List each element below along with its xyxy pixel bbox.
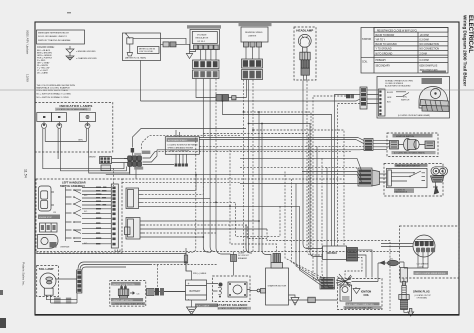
bus y167.3 <box>240 167 362 175</box>
svg-text:W TO GROUND: W TO GROUND <box>376 53 393 55</box>
svg-text:(LOCATED ON RIGHT HANDLEBAR): (LOCATED ON RIGHT HANDLEBAR) <box>398 114 430 117</box>
throttle left connector <box>360 87 379 109</box>
svg-text:9920 ATV Update: 9920 ATV Update <box>26 30 30 54</box>
svg-text:STATOR LOCATED UNDER MODULE: STATOR LOCATED UNDER MODULE <box>415 272 447 275</box>
svg-text:DK = DARK: DK = DARK <box>37 71 49 74</box>
magneto flywheel <box>413 235 435 257</box>
svg-text:STATOR: STATOR <box>362 38 371 41</box>
wire headlamp drop 2 <box>307 81 323 256</box>
gear indicator switch title label <box>395 164 428 167</box>
bus y253.5 <box>37 253 187 255</box>
left edge scan smudge <box>0 318 6 328</box>
tail lamp wires <box>46 294 77 304</box>
throttle label above box <box>422 71 446 74</box>
indicator lamps dashed box <box>35 103 113 153</box>
svg-text:MAIN/TRACE COLORS, EXAMPLE:: MAIN/TRACE COLORS, EXAMPLE: <box>37 87 71 90</box>
wire breaker top <box>233 252 235 276</box>
svg-text:(LOCATED BELOW HANDLEBARS): (LOCATED BELOW HANDLEBARS) <box>57 108 88 111</box>
svg-text:ADJUSTMENT IS REQUIRED: ADJUSTMENT IS REQUIRED <box>385 85 411 88</box>
svg-text:REGULATOR: REGULATOR <box>196 37 209 40</box>
svg-text:COIL: COIL <box>362 62 368 64</box>
wire limiter drop 3 <box>252 80 254 252</box>
svg-text:SWITCH ASSEMBLY: SWITCH ASSEMBLY <box>60 184 85 188</box>
svg-text:20 AMP: 20 AMP <box>238 251 245 254</box>
handlebar wire label dashes <box>96 187 106 245</box>
svg-text:(LOCATED ON TOP: (LOCATED ON TOP <box>415 294 432 297</box>
legend text block wires represented <box>37 30 85 44</box>
ignition coil labels <box>344 302 382 309</box>
gear indicator located label <box>394 188 414 193</box>
resistance table <box>361 28 448 74</box>
brake switch harness connector <box>147 289 162 296</box>
wire vertical 322 <box>322 158 325 277</box>
legend NC NO notes <box>37 84 76 99</box>
starter motor <box>266 254 289 306</box>
20 amp circuit breaker <box>231 251 250 261</box>
svg-text:STARTER MOTOR: STARTER MOTOR <box>268 285 287 288</box>
svg-text:WIRES ARE REPRESENTED BY: WIRES ARE REPRESENTED BY <box>38 32 70 35</box>
harness connector block B <box>125 218 144 240</box>
wire tail harness right 2 <box>150 264 217 266</box>
wire connA pin4 <box>142 202 281 236</box>
reverse speed limiter <box>241 27 268 47</box>
wire throttle left 1 <box>335 95 361 247</box>
svg-text:BLK/R TO GROUND: BLK/R TO GROUND <box>376 44 398 46</box>
svg-text:COIL: COIL <box>364 295 370 297</box>
inline fuse on battery positive <box>184 248 187 271</box>
wire vertical 217 <box>216 175 231 254</box>
page frame <box>35 22 459 315</box>
battery cables labels <box>193 272 218 308</box>
engine stop label <box>38 215 60 220</box>
wire tail harness right 1 <box>160 255 186 262</box>
svg-text:BLK/R TO BRN/W: BLK/R TO BRN/W <box>376 35 396 37</box>
wire regulator drop 1 <box>196 79 216 98</box>
magneto labels <box>414 271 449 275</box>
ignition coil dashed box <box>338 279 383 310</box>
gear indicator lamp pair <box>431 167 448 182</box>
wire battery plus to solenoid <box>207 283 213 285</box>
magneto feed from left <box>381 244 413 247</box>
legend engine ground symbol <box>66 46 96 53</box>
wire connB pin2 <box>143 225 267 239</box>
reverse speed limiter wires down <box>246 47 259 59</box>
svg-text:Wiring Diagram 2000 Trail Blaz: Wiring Diagram 2000 Trail Blazer <box>463 15 468 86</box>
svg-text:SPEEDO AREA AND ENGINE: SPEEDO AREA AND ENGINE <box>168 146 194 149</box>
tail lamp dashed box <box>37 266 59 297</box>
wire cdi out 3 <box>345 258 362 279</box>
wire connB pin3 <box>143 228 267 230</box>
svg-text:Polaris Sales Inc.: Polaris Sales Inc. <box>22 262 26 286</box>
battery positive wire <box>186 263 192 280</box>
speedometer note box <box>165 137 199 155</box>
bus y149.8 <box>157 148 364 151</box>
svg-text:= ENGINE GROUND: = ENGINE GROUND <box>76 51 96 53</box>
starter solenoid dashed box <box>213 276 251 302</box>
frame bottom emphasis <box>35 314 459 316</box>
wire connA pin1 <box>142 175 197 191</box>
wire connB pin4 <box>143 232 216 234</box>
svg-text:GRN: GRN <box>387 97 392 99</box>
svg-text:TRANSMISSION: TRANSMISSION <box>394 191 408 194</box>
indicator lamp box 2 <box>52 113 67 122</box>
wire cdi out 1 <box>358 250 373 278</box>
svg-text:+: + <box>188 282 190 286</box>
ignition coil body <box>340 285 352 301</box>
wire cdi out 2 <box>358 255 367 278</box>
reverse speed limiter label <box>239 23 272 26</box>
handlebar switch housing <box>39 186 57 214</box>
tail lamp harness wires up <box>78 262 160 270</box>
wire vertical 196 dashed lower <box>186 138 196 256</box>
switch button row <box>40 223 58 232</box>
svg-text:INDICATOR LAMPS: INDICATOR LAMPS <box>60 104 93 108</box>
gear indicator switch dashed box <box>384 164 443 197</box>
svg-text:0.3 OHM: 0.3 OHM <box>420 40 429 42</box>
brake lamp switch labels <box>111 298 145 306</box>
cluster lower wire <box>143 164 175 166</box>
starter solenoid labels <box>217 303 251 310</box>
speedo feed wires <box>176 130 180 137</box>
legend chassis ground symbol <box>66 53 97 60</box>
route A terminal <box>131 148 134 153</box>
tail lamp harness connector <box>77 270 82 293</box>
gear indicator ground <box>433 182 439 194</box>
svg-text:OF ENGINE): OF ENGINE) <box>417 297 428 299</box>
svg-text:OVERRIDE: OVERRIDE <box>60 247 70 249</box>
cdi box <box>323 246 347 260</box>
svg-text:(LOCATED BELOW HANDLEBARS): (LOCATED BELOW HANDLEBARS) <box>394 152 425 155</box>
svg-text:ENGINE STOP: ENGINE STOP <box>39 217 53 219</box>
svg-text:BREAKER: BREAKER <box>238 257 248 260</box>
svg-text:LIMITER: LIMITER <box>248 36 257 38</box>
wire engine dashed route <box>267 229 390 311</box>
svg-text:R/W = RED WITH WHITE TRACE: R/W = RED WITH WHITE TRACE <box>37 89 69 92</box>
headlamp bulb <box>298 34 311 47</box>
ground near voltage regulator <box>186 52 192 59</box>
svg-text:GEAR INDICATOR SWITCH: GEAR INDICATOR SWITCH <box>396 164 421 167</box>
handlebar strip feed wires <box>82 188 111 244</box>
svg-text:NC = SWITCH NORMALLY CLOSED: NC = SWITCH NORMALLY CLOSED <box>37 93 72 96</box>
svg-text:ETC: ETC <box>403 97 408 99</box>
wire headlamp drop 1 <box>303 81 323 249</box>
wire vertical 203 lower <box>203 140 211 253</box>
svg-text:6300 OHM PLUS: 6300 OHM PLUS <box>420 65 438 67</box>
bus y137.5 <box>199 138 364 141</box>
svg-text:REVERSE SPEED: REVERSE SPEED <box>245 32 263 34</box>
starter to coil wire <box>289 297 338 303</box>
wire vertical 327 <box>327 167 335 287</box>
indicator lamp box 1 <box>37 113 52 122</box>
spark plug <box>399 278 409 312</box>
svg-text:(SHORTS OUT BUTTON): (SHORTS OUT BUTTON) <box>113 284 135 286</box>
svg-text:0.3 OHM: 0.3 OHM <box>420 60 429 62</box>
wire vertical 230 <box>230 150 277 254</box>
wire limiter drop 2 <box>248 80 250 252</box>
ignition switch key cylinder <box>390 139 435 151</box>
svg-text:12/99: 12/99 <box>26 74 30 82</box>
bus y171.5 <box>302 172 362 180</box>
oil sender connector pair <box>161 42 190 52</box>
ignition switch dashed box <box>387 133 438 157</box>
svg-text:NO CONNECTION: NO CONNECTION <box>420 44 440 46</box>
spark plug label <box>413 289 432 299</box>
svg-text:IGNITION: IGNITION <box>361 292 372 294</box>
starter motor ground <box>289 295 296 298</box>
wire solenoid to starter <box>247 290 252 291</box>
harness connector block A <box>126 188 142 209</box>
svg-text:Y/R TO Y: Y/R TO Y <box>376 40 386 42</box>
svg-text:NORMAL OPERATION IS OPEN: NORMAL OPERATION IS OPEN <box>385 79 413 82</box>
voltage regulator wires down <box>190 49 217 60</box>
reverse speed limiter connector stack <box>242 59 263 80</box>
svg-text:BLACK CABLE TO SPARK PLUG: BLACK CABLE TO SPARK PLUG <box>347 303 375 306</box>
wire coil feed 299 <box>300 206 326 288</box>
throttle terminal squares <box>346 94 350 98</box>
svg-text:Y TO GROUND: Y TO GROUND <box>376 49 392 51</box>
svg-text:11.54: 11.54 <box>24 169 28 178</box>
wire coil feed 291 <box>292 179 326 282</box>
left edge scan mark <box>0 290 3 295</box>
svg-text:RESISTANCES CLOSE W 68°F (20°C: RESISTANCES CLOSE W 68°F (20°C) <box>377 29 417 32</box>
voltage regulator <box>190 30 220 50</box>
svg-text:LR 39-1: LR 39-1 <box>198 41 206 43</box>
four lobe connector <box>124 156 142 179</box>
magneto pin wires <box>400 252 429 268</box>
indicator lamp wires <box>43 128 96 159</box>
wire ac connector drop <box>157 265 159 289</box>
svg-text:BRAKE LAMP SWITCH: BRAKE LAMP SWITCH <box>113 299 134 302</box>
handlebar switch contacts <box>60 189 88 248</box>
dashed bus y251.5 <box>37 251 400 253</box>
cluster diagonal stubs <box>143 150 158 162</box>
svg-text:NO CONNECTION: NO CONNECTION <box>420 49 440 51</box>
svg-text:METER CLOSE IN: METER CLOSE IN <box>139 48 156 50</box>
top margin dust <box>67 12 71 13</box>
svg-text:(METER IN OIL TANK): (METER IN OIL TANK) <box>125 57 146 60</box>
ignition coil wire crossing <box>336 274 352 288</box>
wire vertical 246 lower <box>246 225 252 253</box>
wire connA pin2 <box>142 179 204 194</box>
svg-text:IGNITION SWITCH: IGNITION SWITCH <box>396 136 415 138</box>
lamp socket 1 <box>42 122 47 129</box>
bus y179 <box>122 178 344 180</box>
wire coil feed 296 <box>296 184 325 286</box>
wire coil feed 285 <box>285 172 325 280</box>
bus y183.5 <box>240 183 362 185</box>
svg-text:COLOR CODE:: COLOR CODE: <box>37 46 55 49</box>
lamp socket 2 <box>57 122 62 129</box>
ac connector pair bottom left <box>155 288 185 296</box>
svg-text:ALTERNATE SPEEDO: ALTERNATE SPEEDO <box>168 139 188 142</box>
tail lamp wire labels <box>54 298 71 304</box>
tail lamp bulb <box>40 273 77 303</box>
svg-text:BLK (-) CABLE: BLK (-) CABLE <box>197 305 210 308</box>
ignition switch located label <box>392 151 436 154</box>
svg-text:SOLID OR DASHED LINES TO: SOLID OR DASHED LINES TO <box>38 35 68 38</box>
bus y174.6 <box>106 175 362 183</box>
brake lamp switch body <box>118 285 140 299</box>
wire connA pin3 <box>142 197 211 199</box>
indicator connector strip drop <box>113 168 115 186</box>
svg-text:GRN: GRN <box>78 140 83 142</box>
spark plug wire ferrite <box>352 259 399 282</box>
svg-text:BRN/W: BRN/W <box>89 157 96 159</box>
magneto dashed box <box>400 226 460 278</box>
cdi charge coil label <box>417 263 430 269</box>
wire regulator drop 2 <box>202 79 204 138</box>
svg-text:CDI BOX: CDI BOX <box>327 252 338 255</box>
battery ground <box>187 300 197 315</box>
svg-text:= CHASSIS GROUND: = CHASSIS GROUND <box>76 57 97 60</box>
svg-text:STARTER SOLENOID: STARTER SOLENOID <box>217 303 247 307</box>
wire regulator drop 3 <box>210 79 215 252</box>
svg-text:N.O.: N.O. <box>84 195 88 197</box>
ignition switch harness connector <box>364 139 390 151</box>
bus y151.4 <box>155 150 352 152</box>
throttle housing drawing <box>419 87 449 112</box>
bus y139.5 <box>199 140 364 144</box>
indicator lamp drop wires <box>43 159 130 173</box>
junction dots <box>185 100 263 263</box>
svg-text:HEADLAMP: HEADLAMP <box>296 29 313 33</box>
svg-text:2 OHM: 2 OHM <box>420 53 427 55</box>
headlamp connector stack <box>300 47 310 80</box>
wire connB pin1 <box>143 220 259 222</box>
wire vertical 259 <box>258 112 260 252</box>
electronic throttle control box <box>377 77 450 119</box>
brake lamp switch dashed box <box>110 281 146 307</box>
wire oil sender drop <box>141 60 361 101</box>
connector labels <box>142 151 151 154</box>
cdi connector <box>347 248 358 262</box>
voltage regulator label <box>187 25 221 28</box>
wire vertical 262 <box>262 124 271 263</box>
svg-text:.20 OHM: .20 OHM <box>420 35 429 37</box>
wire connA pin5 <box>142 205 300 207</box>
wire route B <box>142 136 241 151</box>
indicator lamp box 3 <box>80 113 96 122</box>
svg-text:DC CIRCUIT: DC CIRCUIT <box>238 255 250 257</box>
svg-text:LEFT HANDLEBAR: LEFT HANDLEBAR <box>62 181 86 185</box>
spark plug boot <box>400 268 407 283</box>
svg-text:SIMPLIFY TRACING IN DIAGRAM.: SIMPLIFY TRACING IN DIAGRAM. <box>38 39 71 42</box>
svg-text:LOCATED IN SERVICE BETWEEN: LOCATED IN SERVICE BETWEEN <box>168 143 199 146</box>
scan fold line <box>0 89 474 91</box>
wire reg aux drop <box>203 134 308 251</box>
battery <box>186 280 207 301</box>
svg-text:PRIMARY: PRIMARY <box>376 59 387 62</box>
spark plug ground arrow <box>408 309 414 317</box>
svg-text:THE COLOR WIRES ARE SHOWN WITH: THE COLOR WIRES ARE SHOWN WITH <box>37 84 76 87</box>
wire regulator drop 4 <box>215 79 217 175</box>
wire throttle left 3 <box>338 104 361 247</box>
legend color code list <box>37 46 55 74</box>
svg-text:N.C.: N.C. <box>84 211 88 213</box>
connector pair mid harness <box>216 80 247 102</box>
speedo wires down <box>175 154 188 166</box>
starter motor feed connector <box>252 289 266 294</box>
ignition coil harness connector <box>320 278 335 290</box>
wire connB pin5 <box>143 236 203 238</box>
svg-text:(LOCATED BELOW REAR LAMP): (LOCATED BELOW REAR LAMP) <box>345 307 373 310</box>
wire brake switch to battery <box>164 291 186 293</box>
wire throttle dashed 313 <box>313 96 346 280</box>
svg-text:BATTERY: BATTERY <box>190 290 201 293</box>
gear indicator switch box <box>387 168 428 187</box>
oil level sender box <box>123 33 187 61</box>
svg-text:LOW OIL LEVEL: LOW OIL LEVEL <box>139 51 153 53</box>
svg-text:NO = SWITCH NORMALLY OPEN: NO = SWITCH NORMALLY OPEN <box>37 96 69 99</box>
bus y158.4 <box>240 158 362 172</box>
harness connector below indicator lamps <box>100 157 112 171</box>
wire vertical 317 <box>317 146 320 280</box>
wire pin strip stubs <box>115 250 120 253</box>
svg-text:VOLTAGE: VOLTAGE <box>197 33 207 36</box>
svg-text:CLOSED WITH HAND BRAKE APPLIED: CLOSED WITH HAND BRAKE APPLIED <box>112 303 145 306</box>
voltage regulator connector stack <box>193 60 220 79</box>
wire route A <box>133 129 247 148</box>
bus y146.3 <box>199 145 364 148</box>
headlamp dashed box <box>294 27 316 80</box>
svg-text:TAIL LAMP: TAIL LAMP <box>39 267 54 271</box>
gear indicator harness connector <box>358 168 387 186</box>
wire limiter drop 1 <box>243 80 245 252</box>
svg-text:SECONDARY: SECONDARY <box>376 64 391 67</box>
handlebar pin strip <box>111 184 118 248</box>
svg-text:R/W (+) CABLE: R/W (+) CABLE <box>193 272 207 275</box>
ignition coil ground <box>353 287 360 294</box>
indicator connector to cluster <box>112 159 129 163</box>
svg-text:BLK/W: BLK/W <box>387 92 393 94</box>
svg-text:SWITCH: SWITCH <box>401 99 410 101</box>
svg-text:SPARK PLUG: SPARK PLUG <box>413 289 430 293</box>
svg-text:(LOCATED ON FRONT OF BATTERY): (LOCATED ON FRONT OF BATTERY) <box>218 307 248 310</box>
left handlebar switch assembly dashed box <box>36 179 122 253</box>
lamp socket 3 <box>85 122 90 129</box>
headlamp dimmer knob <box>38 235 59 249</box>
bus y182.6 dashed left <box>122 182 240 184</box>
handlebar switch bus line <box>65 187 67 241</box>
wire throttle left 2 <box>223 101 332 246</box>
